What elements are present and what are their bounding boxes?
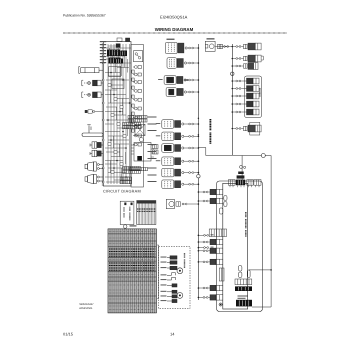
board connector CN7: [198, 261, 203, 263]
drain valve L1: [90, 142, 103, 148]
connector J6: [162, 132, 184, 141]
thermostat TH1: [232, 46, 236, 48]
board jumper pins 2: [247, 270, 250, 278]
circuit ladder vertical wires: [108, 44, 130, 184]
diverter surround box: [250, 122, 260, 135]
controller block U3: [134, 143, 151, 162]
turbidity sensor: [232, 58, 236, 60]
vent assembly box: [205, 41, 215, 51]
legend row 2: [161, 262, 167, 263]
board edge header: [219, 268, 224, 281]
wire to bus: [187, 47, 189, 49]
main board label: [245, 212, 246, 237]
group box label: [259, 88, 260, 97]
connector J10: [162, 180, 184, 189]
svg-text:5995655367: 5995655367: [79, 303, 94, 306]
top dotted rule: [63, 32, 287, 34]
pin header P2: [123, 123, 141, 126]
legend row 5: [161, 279, 167, 280]
bus open circle node: [197, 175, 200, 178]
pin header P5: [120, 177, 131, 180]
wire label column top left: [100, 41, 106, 42]
connector J3: [164, 76, 186, 85]
wire to bus: [187, 62, 189, 64]
dark blob top of circuit: [116, 44, 121, 48]
group sensor row 1: [232, 80, 236, 82]
relay cluster K2: [109, 58, 121, 64]
legend stripe table: [137, 201, 156, 225]
relay cluster K3b: [121, 51, 128, 57]
board tiny text: [238, 296, 248, 297]
board jumper pins 1: [239, 266, 242, 278]
tiny labels right of ladder: [148, 117, 157, 118]
return wire right: [252, 156, 271, 308]
relay cluster K4b: [114, 59, 123, 64]
motor symbol M1: [139, 138, 143, 142]
tiny label above J1: [167, 39, 175, 40]
board edge pin CN3: [219, 208, 223, 214]
pin header P4: [130, 168, 148, 171]
pin header P1: [128, 116, 147, 119]
diverter motor: [232, 128, 236, 130]
dark square inside controller: [137, 156, 142, 161]
board feed wire from harness: [241, 156, 243, 181]
circuit diagram outer box: [103, 42, 131, 187]
connector J1 vent: [166, 42, 188, 53]
node circle on harness wire: [261, 154, 265, 158]
fuse block F1: [235, 286, 252, 291]
bus tick dots: [198, 118, 199, 119]
feed ferrite bead: [238, 172, 244, 175]
legend row 7: [161, 291, 167, 292]
wire color grid: [108, 229, 156, 313]
turbidity tail bracket: [262, 56, 264, 60]
circled mark under notes: [123, 225, 127, 229]
board connector CN1: [198, 191, 203, 193]
ladder left sub-column marks: [132, 70, 134, 73]
relay cluster K1: [107, 50, 120, 57]
group sensor row 3: [232, 95, 236, 97]
board connector CN2: [198, 200, 203, 202]
wire vent to right bus: [216, 46, 233, 48]
grid text band 2: [109, 262, 156, 264]
wire to bus: [184, 147, 189, 149]
bus branch pins lower: [198, 235, 200, 237]
wire to bus: [184, 123, 189, 125]
circuit interior extra wires: [105, 46, 129, 180]
board top connector row: [228, 180, 235, 186]
legend circled symbol 1: [177, 268, 183, 274]
grid thin substripes: [109, 230, 155, 313]
group sensor row 5: [232, 111, 236, 113]
board wide edge block CN4: [209, 229, 226, 237]
grid text band 1: [109, 248, 156, 250]
grid light text rows: [109, 230, 156, 232]
legend row 6: [161, 284, 167, 285]
transformer T1: [236, 300, 252, 307]
connector J4: [166, 88, 186, 97]
blocks on circuit box top edge: [117, 38, 122, 42]
water valve: [232, 65, 236, 67]
grid caption: [130, 225, 137, 226]
right bus wire: [231, 44, 233, 155]
junction dots in ladder: [107, 55, 109, 57]
board terminal strip: [235, 279, 252, 285]
connector J8: [162, 157, 184, 166]
junction node circle: [231, 72, 234, 75]
main control board outline: [223, 183, 248, 309]
svg-text:14: 14: [170, 332, 175, 337]
door switch box: [134, 51, 143, 62]
harness bus wire left: [197, 44, 199, 300]
legend row 4: [161, 274, 167, 275]
circuit left edge double line: [101, 43, 103, 186]
interlock box: [135, 124, 145, 135]
board connector CN8: [198, 287, 203, 289]
pump motor circle: [169, 201, 174, 206]
svg-text:CIRCUIT DIAGRAM: CIRCUIT DIAGRAM: [103, 190, 141, 194]
legend row 9: [161, 300, 167, 301]
svg-text:A05350501: A05350501: [79, 307, 93, 310]
feed filter block: [237, 175, 245, 178]
harness top wire: [206, 155, 271, 157]
connector J9: [162, 168, 184, 177]
legend row 3: [161, 267, 167, 268]
component legend dashed box: [159, 247, 191, 309]
top connector stub pins: [230, 185, 259, 187]
svg-text:EI24ID50QS1A: EI24ID50QS1A: [160, 15, 188, 20]
wash pump M2: [85, 162, 103, 171]
dispenser L2: [90, 150, 103, 156]
connector J7: [162, 144, 184, 153]
legend row 8: [161, 295, 167, 296]
circuit diagram right ladder box: [131, 45, 143, 188]
circuit interior vertical jogs: [110, 48, 128, 180]
svg-text:Publication No. 5995655367: Publication No. 5995655367: [63, 14, 106, 18]
vent fan motor circle: [209, 44, 214, 49]
svg-text:01/15: 01/15: [63, 332, 74, 337]
board connector CN6: [198, 250, 203, 252]
thermistor RT1: [85, 110, 103, 113]
group sensor row 4: [232, 103, 236, 105]
pin header P3: [123, 167, 141, 170]
component block U2: [112, 79, 124, 89]
circuit left edge pins: [102, 47, 104, 49]
circuit interior small parts: [108, 84, 111, 86]
float switch S2a: [82, 80, 104, 86]
board inner edge ovals: [224, 196, 227, 207]
svg-text:WIRING DIAGRAM: WIRING DIAGRAM: [155, 27, 194, 32]
small parts right of controller: [153, 145, 159, 149]
wire to bus: [184, 183, 189, 185]
wire to bus: [186, 79, 189, 81]
board connector CN9: [198, 296, 203, 298]
ladder small components column: [133, 66, 141, 69]
connector J5: [162, 120, 184, 129]
component block U1: [109, 67, 121, 77]
wire to bus: [187, 91, 189, 93]
board connector CN5: [198, 241, 203, 243]
wire to bus: [184, 135, 189, 137]
notes box: [120, 201, 134, 224]
circuit horizontal rungs: [105, 48, 131, 182]
door switch S1: [79, 67, 104, 74]
wire to bus: [184, 160, 189, 162]
pump inline parts: [176, 202, 181, 206]
J3 extra pins: [184, 79, 188, 81]
main board harness loop: [217, 181, 263, 312]
tiny label above vent box: [207, 38, 215, 39]
circulation pump box: [166, 199, 174, 208]
legend row 1: [161, 257, 167, 258]
grid horizontal dividers: [108, 234, 156, 303]
grid side bracket: [157, 245, 158, 299]
sensor group box: [245, 76, 262, 118]
float switch S2b: [82, 92, 104, 98]
sensing bracket label: [210, 119, 212, 144]
heater bracket symbol: [82, 125, 103, 137]
drain pump M3: [85, 174, 103, 183]
legend circled symbol 2: [177, 293, 183, 299]
bus jog to harness wire: [198, 148, 205, 156]
feed pin contacts: [240, 165, 246, 168]
wire to bus: [184, 172, 189, 174]
connector J2: [167, 58, 187, 69]
group sensor row 2: [232, 88, 236, 90]
legend vertical caption: [184, 253, 185, 268]
wire jumper to return: [249, 269, 271, 271]
vent inline connector: [218, 44, 223, 48]
board mount hole: [219, 303, 222, 306]
wire pump to bus: [188, 203, 199, 205]
